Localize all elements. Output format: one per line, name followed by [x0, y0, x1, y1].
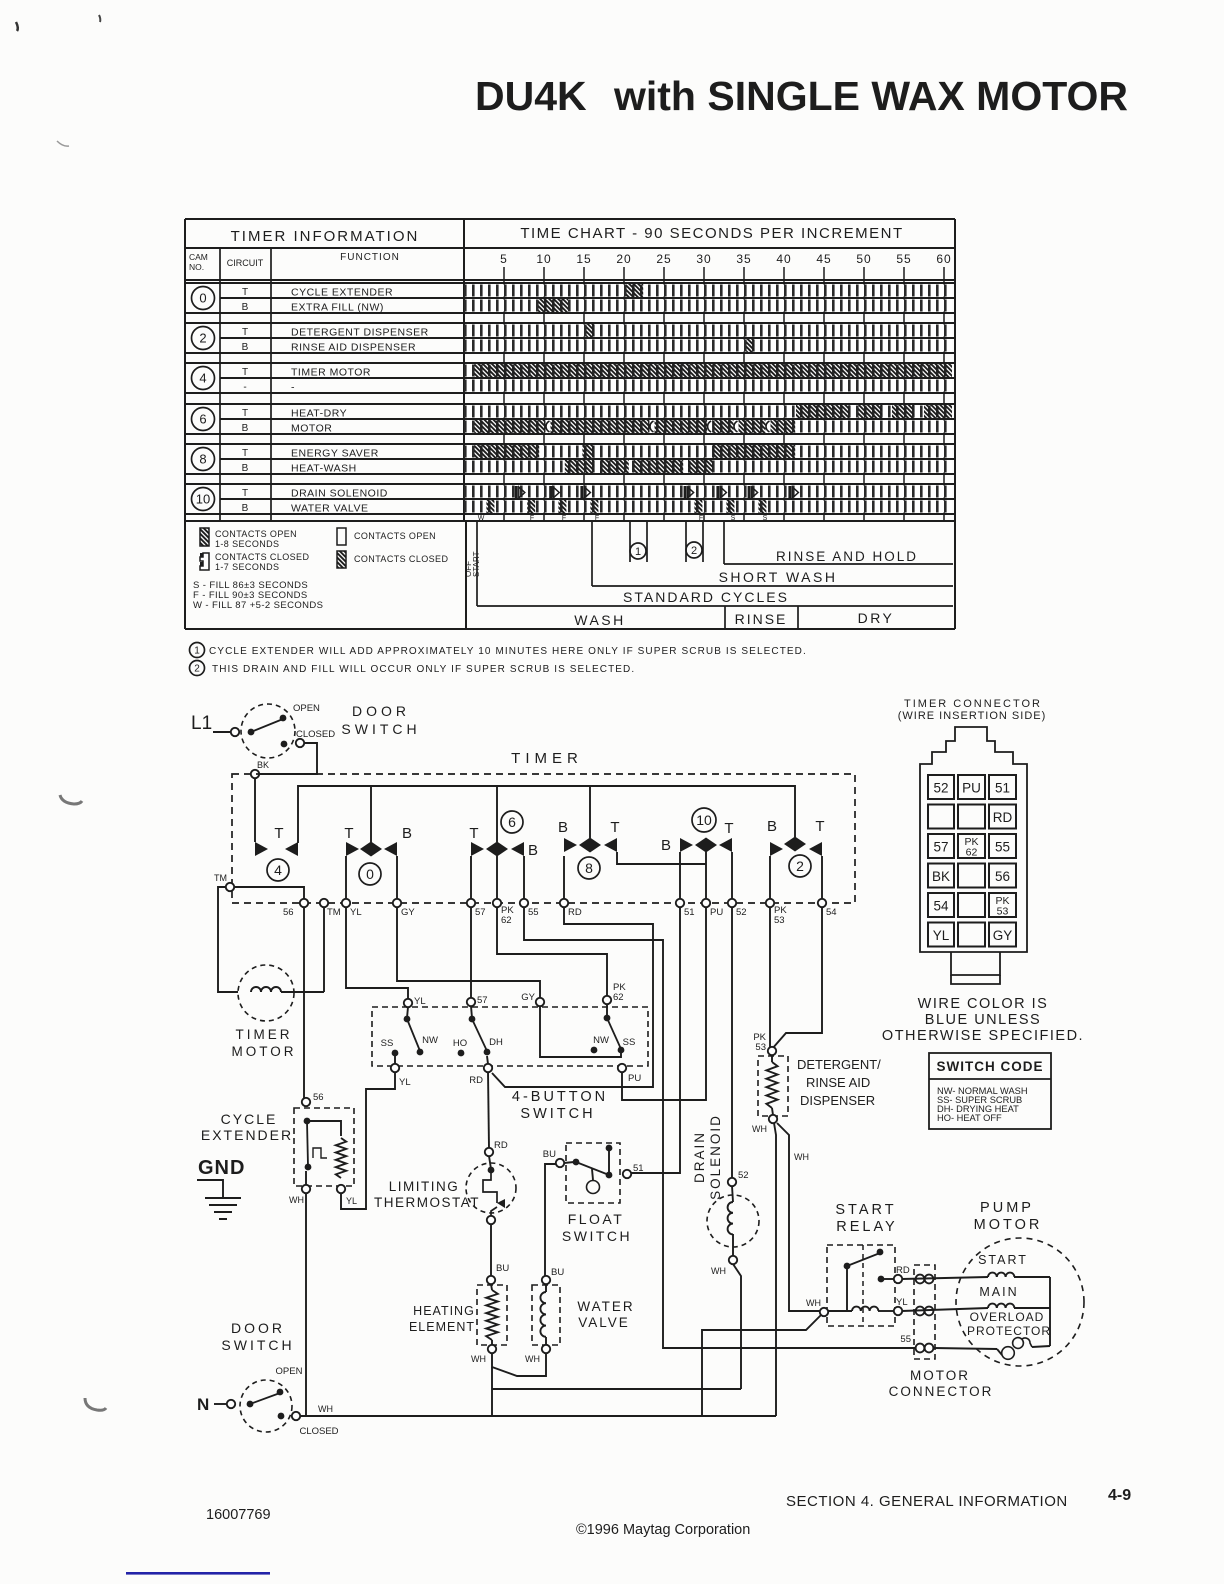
- svg-text:RD: RD: [494, 1140, 508, 1151]
- svg-text:CYCLE: CYCLE: [221, 1111, 278, 1127]
- svg-text:56: 56: [283, 907, 294, 918]
- cycle extender: [302, 1098, 310, 1106]
- svg-text:CYCLE EXTENDER WILL ADD APPROX: CYCLE EXTENDER WILL ADD APPROXIMATELY 10…: [209, 646, 807, 657]
- svg-text:4: 4: [199, 371, 206, 386]
- svg-text:F: F: [595, 515, 599, 522]
- svg-text:YL: YL: [346, 1196, 357, 1206]
- svg-text:NW: NW: [422, 1035, 438, 1046]
- legend box: [185, 628, 955, 630]
- svg-text:WH: WH: [752, 1124, 767, 1134]
- svg-text:GY: GY: [521, 992, 535, 1003]
- svg-text:T: T: [242, 367, 248, 378]
- wire BU: float switch to water valve: [545, 1164, 556, 1276]
- svg-text:0: 0: [199, 291, 206, 306]
- svg-text:HO: HO: [453, 1038, 467, 1049]
- svg-text:YL: YL: [399, 1077, 411, 1088]
- svg-text:B: B: [528, 842, 538, 859]
- svg-text:DRAIN: DRAIN: [692, 1131, 707, 1183]
- svg-text:HO- HEAT OFF: HO- HEAT OFF: [937, 1113, 1002, 1123]
- svg-text:HEATING: HEATING: [413, 1304, 475, 1318]
- svg-text:B: B: [767, 818, 777, 835]
- svg-text:B: B: [558, 819, 568, 836]
- left panel cam rows: [192, 287, 215, 310]
- svg-text:6: 6: [508, 814, 516, 830]
- wire PU: terminal to 4-button switch: [622, 907, 706, 1100]
- svg-text:WH: WH: [318, 1404, 333, 1414]
- svg-text:53: 53: [755, 1042, 766, 1053]
- 4-button: GY to SS contact wire: [540, 1006, 621, 1057]
- svg-text:CLOSED: CLOSED: [296, 729, 335, 740]
- footer blue line: [126, 1572, 270, 1575]
- svg-text:T: T: [242, 408, 248, 419]
- svg-text:W: W: [478, 515, 485, 522]
- svg-text:GY: GY: [401, 907, 415, 918]
- svg-text:RD: RD: [896, 1265, 910, 1276]
- svg-text:1: 1: [194, 646, 200, 657]
- svg-text:B: B: [402, 825, 412, 842]
- svg-text:4-9: 4-9: [1108, 1487, 1131, 1504]
- svg-text:PROTECTOR: PROTECTOR: [967, 1324, 1051, 1338]
- wire TM terminal drop: [323, 907, 325, 992]
- pump motor: [956, 1238, 1084, 1366]
- wire 56: terminal to cycle extender: [303, 907, 305, 1098]
- svg-text:DRAIN SOLENOID: DRAIN SOLENOID: [291, 488, 388, 500]
- svg-text:SWITCH: SWITCH: [341, 721, 420, 737]
- svg-text:YL: YL: [350, 907, 362, 918]
- svg-text:RINSE: RINSE: [735, 611, 788, 627]
- svg-text:SWITCH: SWITCH: [221, 1337, 294, 1353]
- svg-text:WATER: WATER: [577, 1299, 634, 1314]
- svg-text:PU: PU: [628, 1073, 641, 1084]
- drain solenoid: [728, 1178, 736, 1186]
- svg-text:8: 8: [199, 452, 206, 467]
- svg-text:56: 56: [995, 869, 1010, 884]
- svg-text:30: 30: [696, 252, 711, 266]
- 4-button switch 3 (NW/SS): [606, 1004, 608, 1017]
- svg-text:T: T: [242, 287, 248, 298]
- svg-text:57: 57: [475, 907, 486, 918]
- svg-text:B: B: [242, 463, 249, 474]
- svg-text:-: -: [243, 382, 246, 393]
- note marker 1 column: [630, 543, 646, 559]
- svg-text:45: 45: [816, 252, 831, 266]
- svg-text:TM: TM: [214, 873, 227, 883]
- svg-text:T: T: [274, 825, 283, 842]
- svg-text:52: 52: [933, 781, 948, 796]
- svg-text:CONTACTS OPEN: CONTACTS OPEN: [215, 529, 297, 539]
- svg-text:PU: PU: [710, 907, 723, 918]
- svg-text:T: T: [344, 825, 353, 842]
- svg-text:6: 6: [199, 412, 206, 427]
- svg-text:10: 10: [536, 252, 551, 266]
- svg-text:B: B: [242, 503, 249, 514]
- scan artifact marks: [16, 22, 18, 31]
- svg-text:DETERGENT DISPENSER: DETERGENT DISPENSER: [291, 327, 429, 339]
- wire 55: terminal to motor connector: [524, 907, 915, 1348]
- svg-text:SWITCH: SWITCH: [520, 1106, 595, 1122]
- svg-text:SECTION 4. GENERAL INFORMATIO: SECTION 4. GENERAL INFORMATION: [786, 1493, 1068, 1510]
- chart closed-contact hatch segments: [626, 284, 643, 297]
- svg-text:NW: NW: [593, 1035, 609, 1046]
- cam switch 4: [255, 842, 268, 856]
- svg-text:-: -: [291, 382, 295, 394]
- wire TM node to 56 terminal: [234, 887, 304, 899]
- svg-text:B: B: [242, 302, 249, 313]
- motor row white gaps: [546, 420, 551, 433]
- footnote 2: [190, 661, 205, 676]
- svg-text:W - FILL 87 +5-2 SECONDS: W - FILL 87 +5-2 SECONDS: [193, 600, 323, 611]
- cam switch 2: [769, 856, 771, 899]
- note marker 2 column: [686, 542, 702, 558]
- svg-text:53: 53: [774, 915, 785, 926]
- wire YL: terminal to 4-button switch: [346, 907, 408, 999]
- svg-text:35: 35: [736, 252, 751, 266]
- svg-text:54: 54: [826, 907, 837, 918]
- svg-text:EXTRA FILL (NW): EXTRA FILL (NW): [291, 302, 384, 314]
- timer chart table frame: [185, 218, 955, 220]
- svg-text:F: F: [562, 515, 566, 522]
- svg-text:1-8 SECONDS: 1-8 SECONDS: [215, 539, 279, 549]
- wire BK: door switch to timer: [255, 743, 317, 774]
- svg-text:55: 55: [528, 907, 539, 918]
- svg-text:55: 55: [995, 840, 1010, 855]
- svg-text:51: 51: [995, 781, 1010, 796]
- svg-text:SOLENOID: SOLENOID: [708, 1114, 723, 1200]
- svg-text:2: 2: [796, 858, 804, 874]
- start relay: [827, 1245, 895, 1326]
- svg-text:20: 20: [616, 252, 631, 266]
- svg-text:PUMP: PUMP: [980, 1200, 1034, 1216]
- svg-text:MOTOR: MOTOR: [910, 1368, 970, 1383]
- svg-text:T: T: [610, 819, 619, 836]
- svg-text:YL: YL: [414, 996, 426, 1007]
- drain solenoid 1-7s glyphs: [515, 486, 518, 499]
- svg-text:25: 25: [656, 252, 671, 266]
- chart 5-unit grid lines: [503, 280, 505, 521]
- svg-text:ELEMENT: ELEMENT: [409, 1320, 475, 1334]
- svg-text:40: 40: [776, 252, 791, 266]
- timer motor: [238, 965, 294, 1021]
- svg-text:CYCLE EXTENDER: CYCLE EXTENDER: [291, 287, 393, 299]
- svg-text:©1996 Maytag Corporation: ©1996 Maytag Corporation: [576, 1522, 750, 1538]
- door switch (top, L1): [241, 704, 295, 758]
- svg-text:57: 57: [933, 840, 948, 855]
- svg-text:TIMER: TIMER: [511, 750, 583, 767]
- cycle bracket lines: [476, 521, 478, 606]
- svg-text:T: T: [724, 820, 733, 837]
- water valve: [542, 1276, 550, 1284]
- svg-text:RD: RD: [469, 1075, 483, 1086]
- wire 51: terminal to float switch: [631, 907, 680, 1173]
- legend icon contacts open 1-8: [200, 528, 209, 546]
- svg-text:SHORT WASH: SHORT WASH: [719, 569, 838, 585]
- svg-text:L1: L1: [191, 713, 212, 734]
- 4-button switch 2 (HO/DH): [471, 1006, 472, 1018]
- main winding: [902, 1308, 988, 1311]
- wire 54: terminal to dispenser: [772, 907, 822, 1049]
- svg-text:THERMOSTAT: THERMOSTAT: [374, 1195, 480, 1210]
- svg-text:DOOR: DOOR: [231, 1320, 285, 1336]
- svg-text:START: START: [978, 1253, 1028, 1267]
- wire 52: terminal to drain solenoid: [731, 907, 733, 1178]
- svg-text:OTHERWISE SPECIFIED.: OTHERWISE SPECIFIED.: [882, 1028, 1084, 1044]
- svg-text:with SINGLE WAX MOTOR: with SINGLE WAX MOTOR: [613, 73, 1128, 119]
- svg-text:57: 57: [477, 995, 488, 1006]
- svg-text:TIMER MOTOR: TIMER MOTOR: [291, 367, 371, 379]
- wire BU: thermostat to heating element: [490, 1224, 492, 1276]
- svg-text:60: 60: [936, 252, 951, 266]
- svg-text:WH: WH: [711, 1266, 726, 1276]
- svg-text:WH: WH: [289, 1195, 304, 1205]
- footnote 1: [190, 643, 205, 658]
- svg-text:62: 62: [613, 992, 624, 1003]
- wire 57: terminal to 4-button switch: [470, 907, 472, 998]
- timer dashed box: [232, 774, 855, 903]
- svg-text:RD: RD: [568, 907, 582, 918]
- 4-button switch box: [372, 1007, 648, 1066]
- svg-text:16007769: 16007769: [206, 1507, 271, 1523]
- svg-text:MOTOR: MOTOR: [974, 1217, 1043, 1233]
- svg-text:BU: BU: [551, 1267, 564, 1278]
- wire RD: terminal to 4-button switch: [492, 907, 653, 1087]
- legend icon contacts open: [337, 528, 346, 545]
- wire WH: cycle extender to bottom rail: [305, 1193, 307, 1416]
- svg-text:WASH: WASH: [574, 612, 625, 628]
- svg-text:TM: TM: [327, 907, 341, 918]
- svg-text:2: 2: [691, 545, 697, 557]
- 4-button switch 1 (SS/NW): [407, 1007, 408, 1018]
- svg-text:EXTENDER: EXTENDER: [201, 1127, 293, 1143]
- svg-text:START: START: [835, 1202, 896, 1218]
- cam switch 8: [563, 856, 565, 899]
- wire GY: terminal to 4-button switch: [397, 907, 540, 998]
- timer terminals row: [300, 899, 308, 907]
- svg-text:2: 2: [199, 331, 206, 346]
- wire TM node to timer motor: [218, 887, 238, 992]
- limiting thermostat: [466, 1163, 516, 1213]
- svg-text:CONTACTS OPEN: CONTACTS OPEN: [354, 531, 436, 541]
- svg-text:F: F: [530, 515, 534, 522]
- svg-text:4-BUTTON: 4-BUTTON: [512, 1089, 608, 1105]
- svg-text:CONNECTOR: CONNECTOR: [889, 1384, 994, 1399]
- svg-text:S: S: [731, 515, 736, 522]
- svg-text:LIMITING: LIMITING: [389, 1179, 460, 1194]
- switch code box: [929, 1053, 1051, 1129]
- svg-text:51: 51: [684, 907, 695, 918]
- legend icon contacts closed 1-7: [200, 553, 209, 570]
- svg-text:RINSE AID: RINSE AID: [806, 1075, 870, 1090]
- timer connector pin grid: [928, 775, 954, 799]
- svg-text:THIS DRAIN AND FILL WILL OCCUR: THIS DRAIN AND FILL WILL OCCUR ONLY IF S…: [212, 664, 635, 675]
- svg-text:RELAY: RELAY: [836, 1219, 897, 1235]
- wire WH: dispenser to start relay: [777, 1123, 820, 1311]
- svg-text:5: 5: [500, 252, 508, 266]
- svg-text:52: 52: [738, 1170, 749, 1181]
- svg-text:FUNCTION: FUNCTION: [340, 252, 400, 263]
- svg-text:(WIRE INSERTION SIDE): (WIRE INSERTION SIDE): [898, 710, 1047, 722]
- svg-text:SWITCH CODE: SWITCH CODE: [937, 1059, 1044, 1074]
- svg-text:SWITCH: SWITCH: [562, 1228, 632, 1244]
- 4-button: node 57: [467, 998, 475, 1006]
- svg-text:CIRCUIT: CIRCUIT: [227, 258, 264, 268]
- svg-text:DRY: DRY: [858, 610, 895, 626]
- legend icon contacts closed: [337, 551, 346, 568]
- svg-text:HEAT-WASH: HEAT-WASH: [291, 463, 357, 475]
- svg-text:T: T: [242, 448, 248, 459]
- svg-text:YL: YL: [896, 1297, 908, 1308]
- svg-text:B: B: [242, 342, 249, 353]
- svg-text:SS: SS: [623, 1037, 636, 1048]
- wire WH bottom rail: [300, 1415, 776, 1417]
- svg-text:53: 53: [997, 906, 1009, 918]
- svg-text:TIMER: TIMER: [236, 1027, 293, 1042]
- svg-text:CLOSED: CLOSED: [299, 1426, 338, 1437]
- svg-text:DOOR: DOOR: [352, 703, 410, 719]
- heating element: [487, 1276, 495, 1284]
- 4-button: node GY: [536, 998, 544, 1006]
- svg-text:WH: WH: [471, 1354, 486, 1364]
- wire PK62: terminal to 4-button switch: [497, 907, 607, 996]
- svg-text:WH: WH: [806, 1298, 821, 1308]
- svg-text:F: F: [699, 515, 703, 522]
- svg-text:DU4K: DU4K: [475, 73, 587, 119]
- svg-text:B: B: [661, 837, 671, 854]
- motor connector: [914, 1265, 935, 1359]
- svg-text:MOTOR: MOTOR: [291, 423, 332, 435]
- svg-text:DISPENSER: DISPENSER: [800, 1093, 875, 1108]
- svg-text:BU: BU: [543, 1149, 556, 1160]
- svg-text:10: 10: [196, 492, 210, 507]
- svg-text:55: 55: [896, 252, 911, 266]
- svg-text:GY: GY: [993, 928, 1013, 943]
- svg-text:DETERGENT/: DETERGENT/: [797, 1057, 881, 1072]
- svg-text:MAIN: MAIN: [979, 1285, 1018, 1299]
- svg-text:N: N: [197, 1395, 209, 1414]
- svg-text:OPEN: OPEN: [276, 1366, 303, 1377]
- svg-text:GND: GND: [198, 1157, 245, 1179]
- cam switch 0: [345, 856, 347, 899]
- svg-text:CONTACTS CLOSED: CONTACTS CLOSED: [354, 554, 448, 564]
- svg-text:BK: BK: [932, 869, 950, 884]
- svg-text:WH: WH: [794, 1152, 809, 1162]
- svg-text:56: 56: [313, 1092, 324, 1103]
- svg-text:ENERGY SAVER: ENERGY SAVER: [291, 448, 379, 460]
- svg-text:T: T: [469, 825, 478, 842]
- svg-text:RINSE AID DISPENSER: RINSE AID DISPENSER: [291, 342, 416, 354]
- float switch: [566, 1143, 620, 1203]
- svg-text:START: START: [472, 551, 481, 577]
- svg-text:51: 51: [633, 1163, 644, 1174]
- svg-text:0: 0: [366, 866, 374, 882]
- svg-text:1-7 SECONDS: 1-7 SECONDS: [215, 562, 279, 572]
- svg-text:WATER VALVE: WATER VALVE: [291, 503, 368, 515]
- svg-text:50: 50: [856, 252, 871, 266]
- svg-text:CONTACTS CLOSED: CONTACTS CLOSED: [215, 552, 309, 562]
- svg-text:52: 52: [736, 907, 747, 918]
- svg-text:OVERLOAD: OVERLOAD: [970, 1310, 1045, 1324]
- svg-text:S: S: [763, 515, 768, 522]
- wire WH: relay to rail: [702, 1315, 821, 1416]
- svg-text:CAM: CAM: [189, 252, 208, 262]
- svg-text:15: 15: [576, 252, 591, 266]
- svg-text:BLUE UNLESS: BLUE UNLESS: [925, 1012, 1041, 1028]
- svg-text:STANDARD CYCLES: STANDARD CYCLES: [623, 589, 789, 605]
- svg-text:B: B: [242, 423, 249, 434]
- svg-text:10: 10: [696, 812, 712, 828]
- wire WH: drain solenoid down: [733, 1264, 741, 1389]
- svg-text:MOTOR: MOTOR: [232, 1044, 297, 1059]
- svg-text:YL: YL: [933, 928, 950, 943]
- svg-text:BU: BU: [496, 1263, 509, 1274]
- wire WH bus to drain: [492, 1388, 741, 1390]
- svg-text:DH: DH: [489, 1037, 503, 1048]
- svg-text:8: 8: [585, 860, 593, 876]
- svg-text:T: T: [242, 327, 248, 338]
- svg-text:VALVE: VALVE: [578, 1315, 630, 1330]
- WH joint: heating element + water valve: [492, 1353, 546, 1376]
- cam switch 10: [679, 852, 681, 899]
- svg-text:62: 62: [966, 847, 978, 859]
- svg-text:TIMER INFORMATION: TIMER INFORMATION: [231, 228, 420, 245]
- svg-text:FLOAT: FLOAT: [568, 1211, 625, 1227]
- svg-text:BK: BK: [257, 760, 269, 770]
- svg-text:SS: SS: [381, 1038, 394, 1049]
- svg-text:NO.: NO.: [189, 262, 204, 272]
- svg-text:54: 54: [933, 899, 949, 914]
- svg-text:RD: RD: [993, 810, 1013, 825]
- svg-text:TIME CHART - 90 SECONDS PER IN: TIME CHART - 90 SECONDS PER INCREMENT: [520, 225, 903, 242]
- cam switch 6: [470, 856, 472, 899]
- svg-text:4: 4: [274, 862, 282, 878]
- wire WH: dispenser to rail: [774, 1123, 776, 1416]
- svg-text:55: 55: [900, 1334, 911, 1345]
- svg-text:WIRE COLOR IS: WIRE COLOR IS: [918, 996, 1049, 1012]
- detergent dispenser: [768, 1047, 776, 1055]
- svg-text:62: 62: [501, 915, 512, 926]
- svg-text:1: 1: [635, 546, 641, 558]
- 4-button: node PK62: [603, 996, 611, 1004]
- svg-text:T: T: [242, 488, 248, 499]
- svg-text:TIMER CONNECTOR: TIMER CONNECTOR: [904, 698, 1042, 710]
- 4-button: node YL: [404, 999, 412, 1007]
- svg-text:HEAT-DRY: HEAT-DRY: [291, 408, 347, 420]
- svg-text:OPEN: OPEN: [293, 703, 320, 714]
- svg-text:T: T: [815, 818, 824, 835]
- svg-text:WH: WH: [525, 1354, 540, 1364]
- wire PK53: terminal to dispenser: [769, 907, 771, 1047]
- start winding: [902, 1277, 988, 1279]
- chart open-contact tick rows: [464, 285, 952, 297]
- svg-text:2: 2: [194, 664, 200, 675]
- wire RD: 4-button to limiting thermostat: [488, 1072, 489, 1148]
- wire YL: cycle extender to 4-button switch: [341, 1072, 395, 1209]
- relay coil: [828, 1310, 852, 1312]
- svg-text:PU: PU: [962, 781, 981, 796]
- svg-text:RINSE AND HOLD: RINSE AND HOLD: [776, 549, 918, 564]
- timer bus wire: [298, 786, 795, 843]
